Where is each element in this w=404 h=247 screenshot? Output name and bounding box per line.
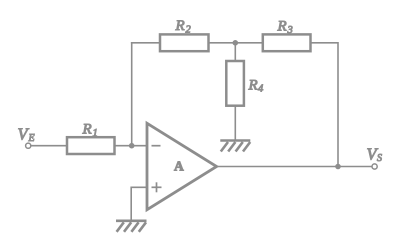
wire: junction down to R4 [234,43,236,61]
resistor R1 [67,137,115,154]
wire: R2 to R3 [208,42,263,44]
svg-text:R: R [175,18,185,34]
resistor R2 [160,34,209,51]
wire: op-amp output to V_S [217,166,372,168]
node: output junction with feedback [335,164,341,170]
wire: R3 to right corner and down to output [311,43,339,167]
svg-text:1: 1 [93,128,98,139]
svg-text:R: R [277,19,287,35]
op-amp minus sign [152,145,161,147]
wire: left feedback vertical (corner down to inverting node) [131,42,133,146]
svg-text:S: S [377,153,382,164]
svg-text:3: 3 [287,25,293,36]
ground (under R4) [220,141,250,152]
svg-text:E: E [28,133,35,144]
ground (op-amp + input) [116,221,147,232]
wire: R1 to op-amp inverting input [115,145,148,147]
node: inverting input junction [129,143,135,149]
svg-text:A: A [174,159,184,174]
resistor R4 [226,61,244,106]
op-amp A [147,123,217,209]
resistor R3 [263,34,311,51]
svg-text:2: 2 [186,25,192,36]
wire: top-left feedback corner horizontal (node to R2) [131,42,160,44]
terminal: output V_S [372,164,377,169]
svg-text:R: R [248,78,258,94]
svg-text:R: R [82,122,92,138]
wire: R4 to ground [234,106,236,141]
wire: non-inverting input to left then down [131,187,147,221]
svg-text:4: 4 [258,84,264,95]
wire: V_E terminal to R1 [31,145,67,147]
terminal: input V_E [26,143,31,148]
op-amp plus sign [152,186,162,188]
node: junction of R2/R3/R4 [233,40,239,46]
